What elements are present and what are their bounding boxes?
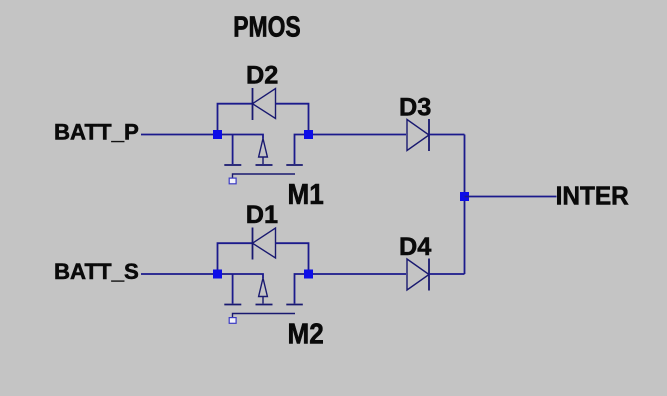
wire BATT_P xyxy=(141,134,213,136)
wire D4 cathode to INTER node xyxy=(429,273,465,275)
wire D1 to M2 source xyxy=(276,243,309,274)
diode D3 xyxy=(407,119,429,151)
wire D3 cathode to INTER node xyxy=(429,134,465,136)
svg-text:M2: M2 xyxy=(288,317,324,350)
junction M2 source node xyxy=(304,270,313,279)
junction M1 drain node xyxy=(213,130,222,139)
diode D2 xyxy=(253,88,276,120)
junction M1 source node xyxy=(304,130,313,139)
diode D4 xyxy=(407,259,429,291)
svg-text:M1: M1 xyxy=(288,178,324,211)
wire M1 source to D3 anode xyxy=(313,134,406,136)
svg-text:D4: D4 xyxy=(399,233,431,261)
svg-text:BATT_P: BATT_P xyxy=(54,119,139,144)
wire INTER xyxy=(465,196,557,198)
transistor M1 xyxy=(218,135,309,184)
svg-text:PMOS: PMOS xyxy=(233,12,301,43)
svg-text:D3: D3 xyxy=(399,94,431,122)
wire D2 to M1 source xyxy=(276,104,309,135)
svg-text:INTER: INTER xyxy=(556,182,629,211)
svg-text:BATT_S: BATT_S xyxy=(54,259,139,284)
junction M2 drain node xyxy=(213,270,222,279)
svg-text:D2: D2 xyxy=(246,61,278,89)
diode D1 xyxy=(253,228,276,260)
wire BATT_S xyxy=(141,273,213,275)
wire M1 drain to D2 anode-side xyxy=(218,104,253,135)
wire M2 source to D4 anode xyxy=(313,273,406,275)
svg-text:D1: D1 xyxy=(246,201,278,229)
transistor M2 xyxy=(218,274,309,323)
junction INTER node xyxy=(460,192,469,201)
wire M2 drain to D1 anode-side xyxy=(218,243,253,274)
wire INTER node trunk xyxy=(464,135,466,275)
